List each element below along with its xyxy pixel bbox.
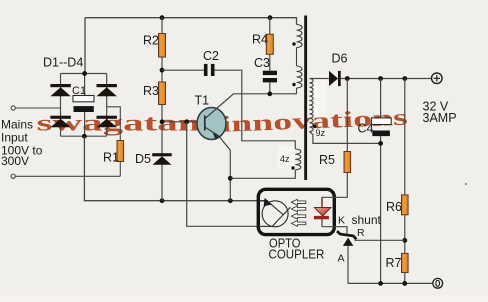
transformer label-backing white boxes bbox=[314, 75, 327, 133]
transformer feedback winding 4z bbox=[295, 149, 301, 170]
bridge rectifier frame D1--D4 bbox=[61, 74, 107, 137]
wire: bridge AC2 tap to R1 top bbox=[107, 107, 121, 141]
svg-text:R5: R5 bbox=[319, 153, 335, 167]
wire: top +DC rail bbox=[85, 18, 297, 25]
wire: R5 column bbox=[346, 79, 348, 152]
phase dot primary lower bbox=[292, 83, 295, 86]
svg-text:COUPLER: COUPLER bbox=[269, 247, 325, 262]
resistor R3 bbox=[159, 82, 166, 105]
mains input terminal top bbox=[11, 106, 15, 110]
resistor R2 bbox=[159, 34, 166, 58]
capacitor C4 bbox=[371, 118, 391, 136]
node: D5 anode junction bbox=[160, 198, 165, 203]
node: emitter-4z junction bbox=[228, 176, 233, 181]
node: C4 ground on rail bbox=[378, 281, 383, 286]
wire: ref line to R6/R7 junction bbox=[355, 239, 405, 241]
phase dot primary upper bbox=[292, 42, 295, 45]
node: junction dot R2 top bbox=[160, 15, 165, 20]
wire: mains top to bridge AC1 bbox=[15, 107, 60, 109]
wire: mains bottom to R1 bbox=[15, 175, 120, 177]
diode D2 (bridge top-right) bbox=[97, 84, 117, 96]
node: R5 tap bbox=[345, 76, 350, 81]
svg-text:R7: R7 bbox=[386, 256, 402, 270]
svg-text:A: A bbox=[338, 253, 345, 265]
node: 9z/C4 ground junction bbox=[378, 141, 383, 146]
wire: base wire R3 to T1 bbox=[162, 121, 198, 123]
wire: base junction down to opto emitter side bbox=[187, 122, 259, 227]
shunt regulator TL431 bbox=[337, 231, 356, 246]
diode D5 bbox=[152, 153, 172, 165]
transformer primary winding upper bbox=[297, 25, 303, 48]
svg-text:R6: R6 bbox=[386, 200, 402, 214]
resistor R5 bbox=[344, 152, 351, 173]
transformer secondary winding 9z bbox=[309, 79, 313, 132]
wire: R6/R7 column bbox=[404, 79, 406, 284]
node: base-D5 junction bbox=[160, 119, 165, 124]
svg-text:R4: R4 bbox=[252, 33, 268, 47]
svg-text:4z: 4z bbox=[280, 154, 290, 164]
opto light arrows bbox=[291, 199, 305, 226]
node: bridge - junction bbox=[82, 134, 87, 139]
wire: primary ground rail (bridge minus to opto) bbox=[84, 136, 268, 201]
diode D4 (bridge bottom-right) bbox=[97, 116, 117, 128]
svg-text:C1: C1 bbox=[72, 85, 86, 97]
svg-text:D5: D5 bbox=[135, 152, 151, 166]
diode D3 (bridge bottom-left) bbox=[50, 116, 70, 128]
svg-text:K: K bbox=[338, 215, 345, 227]
node: R6/R7/ref junction bbox=[402, 238, 407, 243]
stray mark bbox=[465, 183, 467, 185]
svg-text:3AMP: 3AMP bbox=[423, 111, 457, 125]
svg-text:300V: 300V bbox=[1, 154, 29, 168]
node: snubber/primary-bottom junction bbox=[267, 91, 272, 96]
node: R6 tap bbox=[402, 76, 407, 81]
resistor R1 bbox=[117, 141, 124, 162]
svg-text:C4: C4 bbox=[358, 122, 374, 136]
wire: 9z top to D6 bbox=[309, 78, 329, 80]
svg-text:Input: Input bbox=[1, 131, 28, 145]
node: R2/R3/C2 junction bbox=[160, 68, 165, 73]
wire: R1 bottom lead bbox=[119, 162, 121, 177]
wire: shunt anode down bbox=[347, 246, 349, 284]
svg-text:9z: 9z bbox=[316, 128, 326, 138]
capacitor C2 bbox=[204, 64, 215, 76]
node: C4 tap bbox=[378, 76, 383, 81]
phase dot 4z bbox=[291, 166, 294, 169]
resistor R4 bbox=[266, 34, 273, 54]
diode D1 (bridge top-left) bbox=[50, 84, 70, 96]
capacitor C3 bbox=[263, 71, 277, 83]
diode D6 bbox=[329, 71, 341, 86]
wire: link between primary windings bbox=[296, 48, 298, 67]
node: base-opto junction bbox=[184, 119, 189, 124]
wire: R5 to LED anode bbox=[322, 173, 347, 198]
transformer core bbox=[304, 16, 307, 181]
wire: R4/C3 snubber column bbox=[269, 18, 271, 94]
wire: 9z bottom to C4 ground bbox=[309, 132, 380, 144]
transistor T1 bbox=[197, 94, 234, 151]
wire: emitter down to ground rail bbox=[229, 150, 231, 200]
opto LED bbox=[314, 197, 331, 226]
wire: collector rail to primary bottom bbox=[234, 93, 297, 95]
svg-text:D6: D6 bbox=[332, 51, 348, 65]
node: junction dot R4 top bbox=[268, 15, 273, 20]
node: R7 ground on rail bbox=[402, 281, 407, 286]
wire: 4z bottom lead to emitter bbox=[230, 170, 295, 178]
svg-text:T1: T1 bbox=[195, 94, 210, 108]
svg-text:C3: C3 bbox=[254, 56, 270, 70]
svg-text:R3: R3 bbox=[143, 84, 159, 98]
wire: C4 column bbox=[380, 79, 382, 284]
wire: left vertical from bridge + bbox=[84, 18, 86, 74]
svg-text:D1--D4: D1--D4 bbox=[43, 56, 83, 70]
wire: C2 left lead bbox=[162, 69, 204, 71]
transformer primary winding lower bbox=[297, 66, 303, 88]
svg-text:R: R bbox=[357, 227, 365, 239]
wire: LED cathode K to shunt bbox=[322, 227, 347, 234]
svg-text:shunt: shunt bbox=[352, 213, 382, 227]
terminal + output bbox=[432, 73, 443, 84]
svg-text:R1: R1 bbox=[103, 150, 119, 164]
label Mains Input 100V to 300V bbox=[1, 117, 43, 168]
svg-text:Mains: Mains bbox=[1, 117, 33, 131]
svg-text:R2: R2 bbox=[143, 33, 159, 47]
mains input terminal bottom bbox=[11, 174, 15, 178]
terminal 0V output bbox=[433, 278, 443, 288]
watermark "swagatam innovations" bbox=[37, 105, 409, 137]
resistor R6 bbox=[402, 195, 409, 215]
resistor R7 bbox=[402, 253, 409, 272]
wire: C2 right to 4z top bbox=[215, 70, 296, 149]
label 32 V 3AMP bbox=[423, 100, 457, 126]
opto phototransistor bbox=[259, 201, 290, 227]
node: emitter-ground junction bbox=[228, 198, 233, 203]
capacitor C1 bbox=[73, 96, 94, 113]
wire: output + rail bbox=[341, 78, 432, 80]
wire: R2/R3/D5 column bbox=[161, 18, 163, 201]
wire: primary bottom lead bbox=[296, 88, 298, 94]
phase dot 9z bbox=[313, 125, 316, 128]
node: bridge + junction bbox=[82, 71, 87, 76]
opto coupler box bbox=[258, 189, 334, 234]
svg-text:C2: C2 bbox=[203, 49, 219, 63]
label OPTO COUPLER bbox=[269, 236, 325, 262]
wire: 0V rail bbox=[348, 282, 432, 284]
